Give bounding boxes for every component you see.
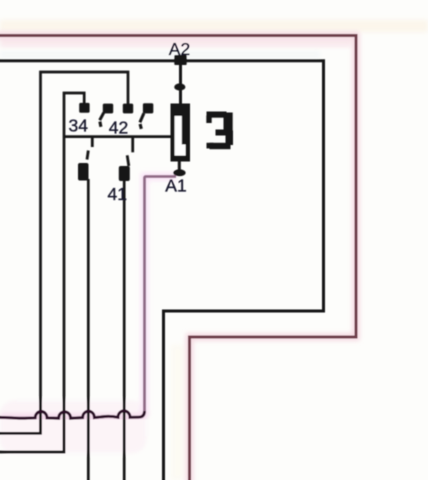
- label 3 (coil designator): [206, 112, 233, 150]
- wire: riser feeding contact 34 fixed terminal, elbow out left: [0, 93, 84, 452]
- contact arm of 34: [100, 113, 104, 127]
- pink wash bottom-left: [0, 401, 146, 453]
- node A2 (square on bus): [174, 55, 186, 65]
- wire from 34 lower terminal to bottom edge: [87, 179, 90, 480]
- relay coil 3 (rectangle): [171, 104, 191, 162]
- label A2: [169, 39, 190, 59]
- node A1 (dot): [173, 169, 185, 176]
- contact 34 lower: arm dash: [87, 151, 88, 160]
- contact 34 lower: stub from link wire: [91, 138, 94, 148]
- contact 41 stub from link wire: [131, 138, 134, 153]
- svg-text:A1: A1: [165, 176, 186, 196]
- jpeg cream band near lower red wire: [171, 345, 184, 480]
- terminal 34 fixed (square): [79, 103, 89, 113]
- wire: horizontal link to coil: [64, 135, 171, 138]
- contact 41 arm dash: [127, 155, 129, 166]
- svg-text:34: 34: [69, 116, 89, 136]
- wire coil to A1: [178, 161, 181, 170]
- jpeg tint band below red border: [0, 38, 352, 47]
- contact arm of 42: [140, 113, 144, 129]
- jpeg tint band above black border: [0, 51, 320, 58]
- halo of pink wire to A1: [145, 177, 177, 415]
- pink wire from A1 down: [145, 177, 177, 413]
- wavy crossover wire (bridges over four verticals): [0, 411, 145, 418]
- halo of wavy crossover wire: [0, 412, 145, 418]
- label 41: [108, 184, 127, 204]
- label 34: [69, 116, 89, 136]
- svg-text:41: 41: [108, 184, 127, 204]
- wire A2 to coil: [179, 62, 182, 104]
- terminal 34 moving (square): [103, 104, 113, 114]
- contact 41 lower terminal (square): [119, 166, 130, 181]
- terminal 42 moving (square): [143, 103, 153, 113]
- wire from 41 terminal to bottom edge: [123, 180, 126, 480]
- contact 34 lower terminal (square): [78, 163, 89, 181]
- jpeg tint band above red border: [0, 20, 428, 32]
- junction blob on A2 wire: [174, 83, 185, 90]
- label A1: [165, 176, 186, 196]
- red supply wire (outer): [0, 36, 356, 480]
- halo of red supply wire: [0, 36, 356, 480]
- terminal 42 fixed (square): [123, 104, 133, 114]
- label 42: [109, 118, 128, 138]
- black border bus wire (outer): [0, 61, 324, 480]
- svg-text:42: 42: [109, 118, 128, 138]
- wire: box from top bus to contact 42 fixed terminal, elbow out left: [0, 72, 128, 433]
